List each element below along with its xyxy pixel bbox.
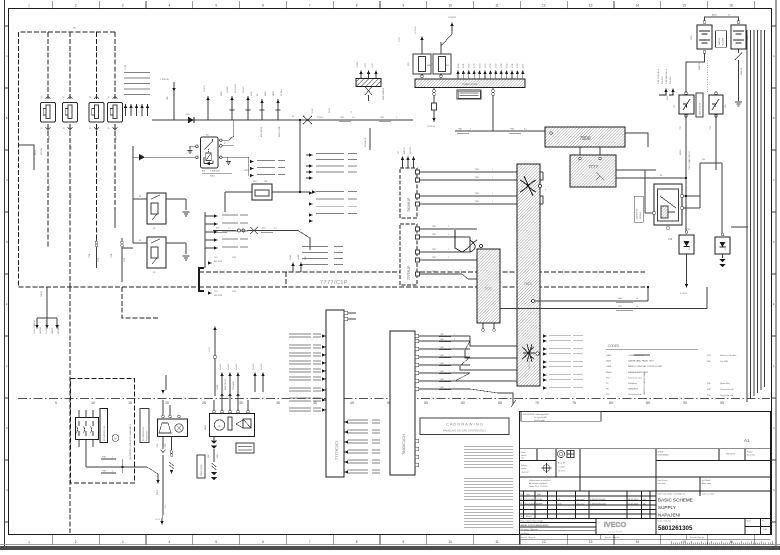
svg-text:MBAT 70: MBAT 70 bbox=[698, 63, 701, 70]
splice X at 307,120 bbox=[303, 116, 312, 124]
bar top pin arrows bbox=[456, 70, 524, 79]
7830 right side fuse stubs bbox=[419, 336, 470, 389]
svg-text:BEACON LMP: BEACON LMP bbox=[224, 378, 227, 390]
svg-text:Rev: Rev bbox=[521, 494, 524, 496]
fuse F4 bbox=[108, 96, 123, 130]
label box by E2 bbox=[197, 455, 205, 478]
fuse F3 bbox=[89, 96, 104, 130]
svg-text:SD5: SD5 bbox=[262, 228, 266, 230]
svg-text:95: 95 bbox=[720, 401, 724, 405]
svg-text:Van 60B: Van 60B bbox=[720, 361, 728, 363]
wire bus drops below fuses bbox=[48, 124, 115, 287]
svg-text:1: 1 bbox=[448, 234, 449, 236]
component A1 with inner rect bbox=[252, 184, 272, 200]
signal fanout list (right of K1) group1 bbox=[306, 153, 313, 179]
svg-text:S21.0: S21.0 bbox=[35, 149, 37, 155]
svg-text:A: A bbox=[6, 54, 8, 58]
svg-text:Sheet No.: Sheet No. bbox=[747, 453, 755, 456]
svg-text:HARNESS: HARNESS bbox=[628, 388, 639, 391]
svg-text:Ind. Modif./: Ind. Modif./ bbox=[702, 480, 711, 482]
svg-text:40: 40 bbox=[313, 401, 317, 405]
svg-text:mm: mm bbox=[521, 458, 524, 460]
svg-text:HANDLING ON CAD SYSTEM ONLY: HANDLING ON CAD SYSTEM ONLY bbox=[443, 429, 486, 433]
stub wires with arrows above C3 bbox=[214, 330, 216, 396]
svg-text:SECTION: SECTION bbox=[214, 295, 223, 297]
svg-text:Mod. (Modif.): Mod. (Modif.) bbox=[521, 516, 533, 518]
svg-text:descr.mod: descr.mod bbox=[577, 503, 585, 506]
wires above/below E1 bbox=[163, 400, 172, 515]
E2 ground chain bbox=[213, 437, 215, 463]
svg-text:5: 5 bbox=[55, 401, 57, 405]
svg-text:1: 1 bbox=[454, 363, 455, 365]
svg-text:7757: 7757 bbox=[618, 306, 622, 308]
svg-text:Harness cab door: Harness cab door bbox=[720, 354, 737, 357]
battery G2 bbox=[731, 25, 746, 49]
svg-text:Data: Data bbox=[526, 493, 530, 496]
ECU box 7777 (hatched) bbox=[570, 155, 616, 187]
svg-text:30: 30 bbox=[108, 97, 110, 99]
svg-text:SAFETY CENTRAL CONTROL UNIT: SAFETY CENTRAL CONTROL UNIT bbox=[628, 365, 663, 368]
relay K1 bbox=[201, 137, 219, 168]
svg-text:HARNESS CHASSIS FRAME: HARNESS CHASSIS FRAME bbox=[643, 370, 646, 395]
svg-text:(O) = M1: (O) = M1 bbox=[558, 463, 566, 465]
svg-text:15: 15 bbox=[682, 4, 686, 8]
svg-text:1 P15/02: 1 P15/02 bbox=[448, 17, 457, 19]
ECU box 7800 (hatched) bbox=[545, 127, 625, 147]
dashed enclosure (cab unit) bbox=[71, 379, 135, 484]
svg-text:MV06: MV06 bbox=[606, 372, 612, 374]
svg-text:S21.0A: S21.0A bbox=[40, 148, 43, 155]
wire battery link bbox=[705, 17, 739, 21]
wire feeds above fuses bbox=[422, 26, 452, 54]
svg-text:12: 12 bbox=[542, 540, 546, 544]
svg-text:5ALIM10: 5ALIM10 bbox=[39, 327, 42, 334]
svg-text:29: 29 bbox=[41, 128, 43, 130]
svg-text:1 F02.05: 1 F02.05 bbox=[160, 79, 169, 81]
beacon label box right bbox=[236, 443, 254, 453]
svg-text:6800/LE: 6800/LE bbox=[52, 327, 54, 334]
junction block 78C0 (hatched tall column) bbox=[517, 164, 540, 386]
svg-text:16: 16 bbox=[636, 306, 638, 308]
svg-text:P15/04: P15/04 bbox=[317, 117, 323, 119]
svg-text:TNB 1: TNB 1 bbox=[157, 490, 159, 495]
svg-text:70: 70 bbox=[535, 401, 539, 405]
svg-text:4: 4 bbox=[169, 4, 171, 8]
svg-text:2.5: 2.5 bbox=[228, 228, 231, 230]
svg-text:E: E bbox=[219, 424, 221, 428]
svg-text:30: 30 bbox=[239, 401, 243, 405]
svg-text:H: H bbox=[6, 488, 8, 492]
svg-text:5.L6: 5.L6 bbox=[165, 505, 167, 508]
breaker Q2 bbox=[709, 95, 723, 114]
svg-text:2.5: 2.5 bbox=[352, 117, 355, 119]
svg-text:16: 16 bbox=[636, 298, 638, 300]
svg-text:(O): (O) bbox=[558, 499, 561, 501]
svg-text:20: 20 bbox=[165, 401, 169, 405]
svg-text:SD CALL: SD CALL bbox=[280, 89, 283, 96]
svg-text:BPB-25TB: BPB-25TB bbox=[662, 76, 664, 84]
svg-text:FU: FU bbox=[643, 499, 646, 501]
svg-text:35: 35 bbox=[276, 401, 280, 405]
svg-text:Riferim.: Riferim. bbox=[521, 465, 528, 467]
svg-text:NAPAJENI: NAPAJENI bbox=[658, 513, 680, 518]
svg-text:5L6 BLR: 5L6 BLR bbox=[220, 363, 222, 370]
svg-text:DIGIT00: DIGIT00 bbox=[410, 147, 412, 154]
svg-text:5L6 BLR: 5L6 BLR bbox=[261, 363, 263, 370]
breaker coupling dotted link bbox=[706, 60, 708, 93]
svg-text:GB10: GB10 bbox=[273, 91, 275, 96]
svg-text:F21: F21 bbox=[446, 65, 449, 67]
svg-text:1: 1 bbox=[112, 457, 113, 459]
svg-text:7777: 7777 bbox=[588, 164, 598, 169]
svg-text:A: A bbox=[773, 54, 775, 58]
svg-text:29: 29 bbox=[63, 128, 65, 130]
bottom ruler column numbers bbox=[52, 535, 754, 545]
svg-text:7000: 7000 bbox=[691, 36, 693, 40]
fine mm ruler bbox=[671, 541, 772, 544]
svg-text:1: 1 bbox=[448, 257, 449, 259]
svg-text:30: 30 bbox=[292, 116, 294, 118]
right edge harness bundle bbox=[747, 30, 765, 402]
ground for master switch bbox=[735, 102, 742, 106]
svg-text:1 F02: 1 F02 bbox=[312, 109, 314, 113]
svg-text:16: 16 bbox=[729, 4, 733, 8]
svg-text:7840: 7840 bbox=[618, 298, 622, 300]
E2 feed arrows up bbox=[220, 392, 239, 400]
svg-text:1: 1 bbox=[454, 379, 455, 381]
hatched terminal strip X9 bbox=[356, 79, 381, 87]
connector band 7777/C1P bbox=[199, 272, 645, 287]
svg-text:5L6 BLR: 5L6 BLR bbox=[236, 363, 238, 370]
svg-text:MODULE: MODULE bbox=[640, 211, 642, 219]
connector 7777/C1CI (tall) bbox=[326, 310, 344, 477]
bus drop x122 bbox=[122, 287, 160, 318]
vertical label plate bbox=[100, 409, 108, 443]
svg-text:MENN: MENN bbox=[680, 149, 682, 155]
K1 branch arrows bbox=[250, 160, 254, 177]
svg-text:JB08: JB08 bbox=[606, 361, 612, 363]
svg-text:5 F02/LP 4: 5 F02/LP 4 bbox=[365, 138, 367, 147]
svg-text:1 F02: 1 F02 bbox=[372, 63, 374, 68]
svg-text:C: C bbox=[6, 178, 8, 182]
svg-text:SUPPLY: SUPPLY bbox=[658, 505, 676, 510]
wires 780J to 78C0 column bbox=[420, 172, 544, 204]
svg-text:5L67: 5L67 bbox=[232, 257, 236, 259]
svg-text:60: 60 bbox=[461, 401, 465, 405]
svg-text:Sost. fin. / Repl. for: Sost. fin. / Repl. for bbox=[521, 536, 536, 539]
svg-text:COMBINAZIONE: COMBINAZIONE bbox=[628, 354, 645, 357]
svg-text:J72B: J72B bbox=[111, 253, 113, 258]
svg-text:049FH: 049FH bbox=[536, 504, 543, 506]
svg-text:01.01.300: 01.01.300 bbox=[525, 499, 535, 501]
svg-text:1 F32: 1 F32 bbox=[469, 64, 471, 68]
svg-text:Resp. reparto / Dept. manager: Resp. reparto / Dept. manager bbox=[521, 520, 544, 523]
wire 7800 right to harness bbox=[625, 133, 648, 140]
left small signal list x205 bbox=[204, 212, 206, 268]
wires around U1 bbox=[645, 163, 722, 235]
splice S1 over 78C0 bbox=[520, 176, 536, 196]
svg-text:6: 6 bbox=[262, 540, 264, 544]
vertical label plate 2 bbox=[140, 409, 149, 443]
svg-text:1: 1 bbox=[492, 177, 493, 179]
svg-text:V12: V12 bbox=[668, 238, 673, 241]
V12 ground lead bbox=[686, 254, 688, 284]
svg-text:1: 1 bbox=[448, 271, 449, 273]
control unit E2 (beacon control) bbox=[210, 414, 255, 437]
wire ground distribution bus (dashed) y287 bbox=[19, 286, 200, 288]
svg-text:L30: L30 bbox=[702, 159, 705, 161]
relay K2 bbox=[147, 193, 166, 224]
svg-text:Issue date: Issue date bbox=[658, 482, 666, 485]
svg-text:POWER DISTRIB.: POWER DISTRIB. bbox=[462, 84, 478, 86]
svg-text:1 F44: 1 F44 bbox=[517, 64, 519, 68]
svg-text:Connector cab: Connector cab bbox=[628, 393, 642, 396]
svg-text:1 F47: 1 F47 bbox=[523, 64, 525, 68]
svg-text:Fabbricante con marchio /: Fabbricante con marchio / bbox=[529, 479, 551, 482]
svg-text:30: 30 bbox=[89, 97, 91, 99]
svg-text:BATERIE: BATERIE bbox=[718, 37, 721, 45]
splice S2 bbox=[455, 230, 477, 252]
svg-text:2730: 2730 bbox=[124, 258, 126, 262]
wires 7777 to right nets bbox=[616, 170, 686, 178]
svg-text:25.01.2021: 25.01.2021 bbox=[628, 504, 639, 506]
svg-text:1: 1 bbox=[492, 169, 493, 171]
svg-text:Torino, 10.2. TO-2000: Torino, 10.2. TO-2000 bbox=[529, 485, 547, 488]
svg-text:5L6/BL: 5L6/BL bbox=[290, 255, 292, 260]
title block outer bbox=[520, 412, 771, 535]
svg-text:MBAT 70: MBAT 70 bbox=[740, 68, 743, 75]
wires below breakers bbox=[686, 114, 716, 178]
svg-text:A1: A1 bbox=[744, 438, 750, 443]
svg-text:1 F91.0: 1 F91.0 bbox=[204, 86, 206, 92]
svg-text:25: 25 bbox=[202, 401, 206, 405]
svg-text:30011: 30011 bbox=[205, 425, 207, 430]
net lines to 78C0 y301/y308 bbox=[500, 287, 707, 309]
svg-text:DASHBOARD PANEL UNIT: DASHBOARD PANEL UNIT bbox=[628, 360, 654, 363]
svg-text:BPB-25TB: BPB-25TB bbox=[670, 76, 672, 84]
svg-text:..CODES: ..CODES bbox=[606, 344, 619, 348]
svg-text:1: 1 bbox=[454, 371, 455, 373]
wires around K2/K3 bbox=[122, 190, 186, 254]
svg-text:7830/C1CH: 7830/C1CH bbox=[401, 434, 406, 455]
splice under strip bbox=[365, 87, 372, 102]
svg-text:2: 2 bbox=[75, 4, 77, 8]
svg-text:08.12.2020: 08.12.2020 bbox=[628, 499, 639, 501]
svg-text:7777/61P: 7777/61P bbox=[407, 265, 411, 280]
svg-text:R10: R10 bbox=[253, 181, 256, 183]
svg-text:BTL INTERIOR LGT: BTL INTERIOR LGT bbox=[104, 426, 106, 441]
svg-text:L/N: L/N bbox=[763, 529, 767, 531]
svg-text:1 P4.06: 1 P4.06 bbox=[680, 293, 688, 295]
svg-text:misura: misura bbox=[521, 455, 526, 457]
svg-text:1: 1 bbox=[448, 249, 449, 251]
svg-text:C A D D R A W I N G: C A D D R A W I N G bbox=[446, 422, 483, 427]
svg-text:OCRE: OCRE bbox=[536, 499, 543, 501]
svg-text:SIGLA/: SIGLA/ bbox=[658, 451, 664, 454]
bottom scan shadow bar bbox=[0, 546, 780, 550]
svg-text:30: 30 bbox=[63, 97, 65, 99]
svg-text:1: 1 bbox=[454, 339, 455, 341]
fuse F2 bbox=[63, 96, 78, 130]
svg-text:11: 11 bbox=[495, 4, 499, 8]
svg-text:1 F38: 1 F38 bbox=[501, 64, 503, 68]
svg-text:2.5: 2.5 bbox=[274, 228, 277, 230]
note label box (relay logic) bbox=[457, 90, 481, 99]
fanout rows right of 78C0 bbox=[543, 334, 547, 389]
svg-text:1 P91: 1 P91 bbox=[399, 37, 401, 42]
revision table bbox=[520, 491, 657, 519]
svg-text:1 P15.01: 1 P15.01 bbox=[415, 26, 417, 34]
svg-text:G: G bbox=[773, 426, 775, 430]
svg-text:W204: W204 bbox=[210, 176, 215, 178]
svg-text:Foglio/: Foglio/ bbox=[747, 452, 753, 454]
7800 bottom pins to 7777 bbox=[580, 140, 648, 155]
svg-text:Spina 60ty: Spina 60ty bbox=[720, 382, 731, 385]
svg-text:1: 1 bbox=[28, 4, 30, 8]
bar bottom connector pins bbox=[433, 90, 436, 96]
svg-text:7-09031-902-431: 7-09031-902-431 bbox=[590, 504, 607, 506]
svg-text:Vis. approv. / Approved: Vis. approv. / Approved bbox=[521, 528, 538, 531]
svg-text:FORCE MFD t:\drawing\ncb87: FORCE MFD t:\drawing\ncb87 bbox=[523, 413, 549, 416]
bus drop x70 to bottom bbox=[69, 287, 71, 533]
svg-text:5.L6/67 CHAS.GR: 5.L6/67 CHAS.GR bbox=[33, 319, 36, 334]
7777/C1CI left pin rows bbox=[322, 334, 326, 411]
svg-text:All'industria standard /: All'industria standard / bbox=[529, 482, 548, 485]
svg-text:1 F67: 1 F67 bbox=[209, 347, 211, 352]
svg-text:Sigla: Sigla bbox=[537, 494, 541, 496]
diode box V13 bbox=[715, 237, 730, 254]
svg-text:IVECO: IVECO bbox=[604, 520, 627, 529]
svg-text:J72A: J72A bbox=[88, 253, 91, 258]
svg-text:9: 9 bbox=[403, 540, 405, 544]
svg-text:14: 14 bbox=[636, 540, 640, 544]
svg-text:DENOMINAZ.: DENOMINAZ. bbox=[658, 453, 670, 456]
beacon lamp unit E1 bbox=[157, 419, 187, 437]
svg-text:5L6 BLR: 5L6 BLR bbox=[253, 363, 255, 370]
svg-text:norme: norme bbox=[521, 468, 526, 470]
svg-text:1 F35: 1 F35 bbox=[485, 64, 487, 68]
TNB links inside enclosure bbox=[86, 447, 158, 480]
wire G1 negative drop bbox=[686, 53, 705, 95]
CAD DRAWING warning box bbox=[420, 418, 509, 435]
svg-text:06.01.2021: 06.01.2021 bbox=[525, 504, 536, 506]
svg-text:1: 1 bbox=[396, 117, 397, 119]
svg-text:Data 1a em./: Data 1a em./ bbox=[658, 479, 669, 482]
relay K3 bbox=[147, 237, 166, 268]
svg-text:780J/61P: 780J/61P bbox=[407, 197, 411, 212]
svg-text:Sost. fin. / Repl. for: Sost. fin. / Repl. for bbox=[605, 536, 620, 539]
hatched power distribution bar 7790 bbox=[415, 79, 525, 88]
svg-text:1 F33: 1 F33 bbox=[474, 64, 476, 68]
svg-text:FRAME GRND: FRAME GRND bbox=[200, 464, 203, 476]
svg-text:AMRAY KOSTELKA/VELENSO: AMRAY KOSTELKA/VELENSO bbox=[521, 524, 549, 527]
svg-text:9: 9 bbox=[403, 4, 405, 8]
svg-text:(O1): (O1) bbox=[558, 504, 562, 506]
svg-text:Overhead cab: Overhead cab bbox=[720, 394, 734, 397]
svg-text:1: 1 bbox=[492, 193, 493, 195]
svg-text:N1: N1 bbox=[660, 175, 662, 177]
diode D2 near K1 bbox=[139, 154, 145, 160]
wire stub labels under fuse F3/F4 bbox=[97, 210, 123, 282]
diode D1 on feed line bbox=[188, 117, 194, 123]
battery G1 bbox=[697, 25, 712, 49]
notes paragraphs bbox=[464, 445, 513, 448]
title block grid lines bbox=[520, 449, 771, 535]
svg-text:5.L6/66 CHAS.GR: 5.L6/66 CHAS.GR bbox=[45, 319, 48, 334]
svg-text:87: 87 bbox=[224, 143, 226, 145]
svg-text:3 TNB 203/5: 3 TNB 203/5 bbox=[210, 171, 220, 173]
signal stubs with up arrows near x230-290 bbox=[229, 96, 280, 120]
svg-text:N. dis. / Draw. No.: N. dis. / Draw. No. bbox=[658, 520, 672, 523]
svg-text:Dis./Drawn: Dis./Drawn bbox=[521, 532, 529, 535]
svg-text:BTL INTERIOR RF: BTL INTERIOR RF bbox=[143, 427, 145, 441]
svg-text:5: 5 bbox=[215, 4, 217, 8]
svg-text:5mm7/carrld7: 5mm7/carrld7 bbox=[534, 420, 545, 422]
svg-text:radice cad. compl. / assembly: radice cad. compl. / assembly root bbox=[658, 493, 686, 496]
svg-text:descr.mod: descr.mod bbox=[577, 498, 585, 501]
svg-text:VEDI SITD: VEDI SITD bbox=[726, 454, 736, 456]
svg-text:D: D bbox=[6, 240, 8, 244]
wire from bar to fuse F75 then down bbox=[433, 96, 435, 121]
svg-text:45: 45 bbox=[350, 401, 354, 405]
svg-text:PRG LAMP: PRG LAMP bbox=[232, 380, 235, 390]
svg-text:Alter. index: Alter. index bbox=[702, 482, 711, 485]
svg-text:A03: A03 bbox=[202, 170, 205, 173]
bus stub x47 with triple ground arrows bbox=[37, 287, 57, 325]
svg-text:1 F75.06: 1 F75.06 bbox=[427, 126, 436, 128]
svg-text:5L6/20: 5L6/20 bbox=[217, 385, 219, 390]
svg-text:1 F60/8: 1 F60/8 bbox=[357, 62, 359, 68]
node junction at 300,120 bbox=[299, 119, 301, 121]
top ruler column numbers 1-16 bbox=[52, 1, 754, 9]
wire from bar down to ECU 7800 bbox=[493, 96, 545, 132]
svg-text:B: B bbox=[773, 116, 775, 120]
svg-text:12: 12 bbox=[542, 4, 546, 8]
svg-text:SECTION: SECTION bbox=[214, 261, 223, 263]
svg-text:TNB 35: TNB 35 bbox=[41, 291, 43, 297]
svg-text:0.5: 0.5 bbox=[524, 129, 527, 131]
svg-text:MASTER SW: MASTER SW bbox=[636, 208, 639, 219]
svg-text:GROUND13: GROUND13 bbox=[58, 325, 60, 334]
svg-text:86: 86 bbox=[139, 196, 141, 198]
svg-text:1: 1 bbox=[28, 540, 30, 544]
svg-text:CA28: CA28 bbox=[606, 365, 612, 368]
stamps / projection symbols bbox=[542, 450, 575, 473]
svg-text:K3P: K3P bbox=[707, 389, 712, 391]
svg-text:ALIMENT.: ALIMENT. bbox=[722, 37, 725, 45]
svg-text:10: 10 bbox=[91, 401, 95, 405]
svg-text:1 P15/2: 1 P15/2 bbox=[243, 86, 245, 93]
svg-text:1 P03: 1 P03 bbox=[365, 63, 367, 68]
svg-text:13: 13 bbox=[589, 540, 593, 544]
U1 note box bbox=[634, 196, 643, 222]
svg-text:1 F68/8: 1 F68/8 bbox=[227, 87, 229, 93]
svg-text:SD 2.5: SD 2.5 bbox=[329, 108, 331, 113]
svg-text:1: 1 bbox=[492, 201, 493, 203]
svg-text:SEAT HEATER: SEAT HEATER bbox=[382, 87, 385, 100]
svg-text:6: 6 bbox=[262, 4, 264, 8]
svg-text:TNB 25: TNB 25 bbox=[71, 194, 73, 200]
svg-text:1: 1 bbox=[454, 355, 455, 357]
svg-text:5L6/BR: 5L6/BR bbox=[298, 254, 300, 260]
svg-text:1 F30: 1 F30 bbox=[458, 64, 460, 68]
svg-text:v e c o S p A: v e c o S p A bbox=[608, 531, 622, 534]
svg-text:75: 75 bbox=[572, 401, 576, 405]
connector 7830/C1CH (tall) bbox=[390, 331, 415, 475]
svg-text:V30: V30 bbox=[186, 114, 189, 116]
svg-text:7777: 7777 bbox=[484, 287, 492, 291]
svg-text:1: 1 bbox=[454, 334, 455, 336]
